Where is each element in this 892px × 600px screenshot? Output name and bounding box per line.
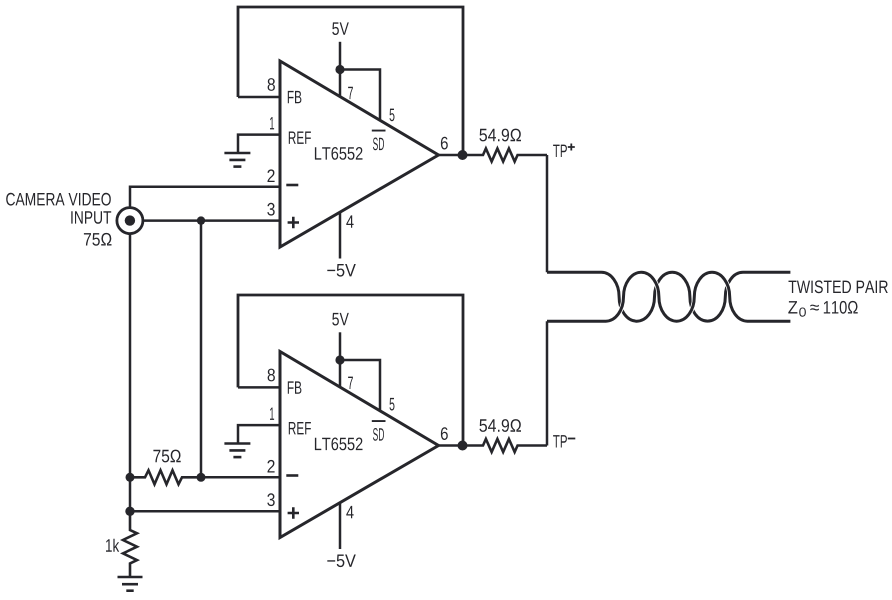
pin name REF U2: [289, 422, 311, 434]
minus input mark U2: [286, 474, 298, 477]
wire: U1 output: [439, 154, 463, 157]
node: input junction: [197, 216, 205, 224]
label: TP+: [553, 145, 567, 157]
wire: pin 5 SD loop U1: [340, 70, 380, 121]
wire: pin 1 REF stub U2: [238, 425, 280, 443]
pin 5 U1: [390, 109, 395, 122]
label: 75 ohm R3: [153, 450, 180, 463]
wire: pin 4 stub U1: [339, 212, 342, 258]
pin 6 U1: [441, 137, 448, 150]
superscript minus of TP-: [568, 438, 576, 440]
wire: pin 1 REF stub U1: [238, 135, 280, 153]
label: 54.9 ohm R2: [479, 419, 521, 432]
pin 3 U1: [267, 203, 274, 216]
wire: TP+ run to twisted pair: [546, 155, 549, 272]
label: 5V U2: [332, 313, 349, 326]
pin 4 U1: [346, 215, 353, 227]
label: 5V U1: [332, 22, 349, 35]
label: LT6552 U2: [315, 438, 363, 451]
pin name SD U1: [373, 138, 384, 151]
twisted pair strand A (top): [547, 272, 790, 321]
label: -5V U2: [327, 555, 356, 568]
resistor R1 54.9 ohm: [463, 149, 548, 162]
pin 3 U2: [267, 493, 274, 506]
pin 1 U2: [270, 408, 274, 420]
wire: pin 5 SD loop U2: [340, 360, 380, 411]
ground symbol at REF U2: [224, 444, 250, 458]
label: approx: [810, 305, 819, 311]
pin name FB U2: [288, 381, 302, 393]
resistor R4 1k: [123, 511, 137, 577]
wire: pin 8 stub U1: [238, 96, 280, 99]
wire: lower feedback loop U2: [238, 295, 463, 446]
node: 75 ohm left junction: [126, 473, 135, 482]
pin 4 U2: [346, 506, 353, 518]
label: 1k R4: [106, 539, 119, 552]
wire: pin 4 stub U2: [339, 503, 342, 549]
wire: input bus down left side: [129, 234, 132, 512]
label: LT6552 U1: [315, 147, 363, 160]
pin name SD U2: [373, 428, 384, 441]
SD overline U1: [372, 130, 386, 132]
label: TWISTED PAIR: [789, 280, 888, 293]
twisted pair strand B (bottom): [547, 272, 790, 321]
pin 7 U2: [348, 377, 353, 389]
wire: pin 8 stub U2: [238, 386, 280, 389]
node: pin3 U2 / 1k junction: [125, 507, 134, 516]
ground symbol at 1k: [118, 577, 143, 591]
twisted pair strand B casing: [606, 272, 748, 321]
wire: 5V supply drop to pin 7 U1: [339, 42, 342, 97]
label: 75 ohm input: [84, 233, 112, 246]
node: U1 output junction: [458, 150, 468, 160]
label: 110 ohm: [824, 301, 858, 314]
pin 2 U1: [268, 169, 275, 182]
op-amp U1 triangle: [280, 61, 439, 247]
node: 5V/pin7 junction U2: [335, 355, 344, 364]
BNC connector: camera video input: [117, 208, 143, 234]
wire: TP- run to twisted pair: [546, 321, 549, 445]
pin 5 U2: [390, 398, 395, 411]
wire: pin 2 input U2: [201, 476, 280, 479]
label: Z: [788, 301, 797, 313]
pin name REF U1: [289, 132, 311, 144]
pin 8 U2: [268, 369, 275, 382]
node: 75 ohm right junction: [197, 473, 206, 482]
label: TP-: [553, 435, 567, 447]
superscript plus of TP+: [568, 144, 575, 151]
op-amp U2 triangle: [280, 352, 439, 538]
pin 6 U2: [441, 427, 448, 440]
pin 1 U1: [270, 117, 274, 129]
minus input mark U1: [286, 184, 298, 187]
label: -5V U1: [327, 264, 356, 277]
wire: pin 3 input U1 from BNC: [135, 219, 280, 222]
wire: junction down to lower pin 2 net: [200, 221, 203, 478]
label: CAMERA VIDEO: [6, 193, 111, 206]
pin name FB U1: [288, 91, 302, 103]
plus input mark U1: [288, 217, 299, 228]
label: 54.9 ohm R1: [479, 129, 521, 142]
plus input mark U2: [288, 507, 299, 518]
label: 0 subscript: [799, 308, 806, 317]
resistor R3 75 ohm: [130, 470, 201, 484]
wire: pin 2 input U1: [130, 187, 280, 208]
pin 8 U1: [268, 78, 275, 91]
wire: 5V supply drop to pin 7 U2: [339, 332, 342, 387]
wire: pin 3 input U2: [130, 510, 280, 513]
SD overline U2: [372, 420, 386, 422]
pin 2 U2: [268, 460, 275, 473]
wire: U2 output: [439, 444, 463, 447]
pin 7 U1: [348, 87, 353, 99]
node: U2 output junction: [458, 441, 468, 451]
resistor R2 54.9 ohm: [463, 439, 548, 452]
ground symbol at REF U1: [224, 153, 250, 167]
node: 5V/pin7 junction U1: [335, 65, 344, 74]
wire: top feedback loop U1: [238, 7, 463, 155]
label: INPUT: [71, 211, 111, 224]
